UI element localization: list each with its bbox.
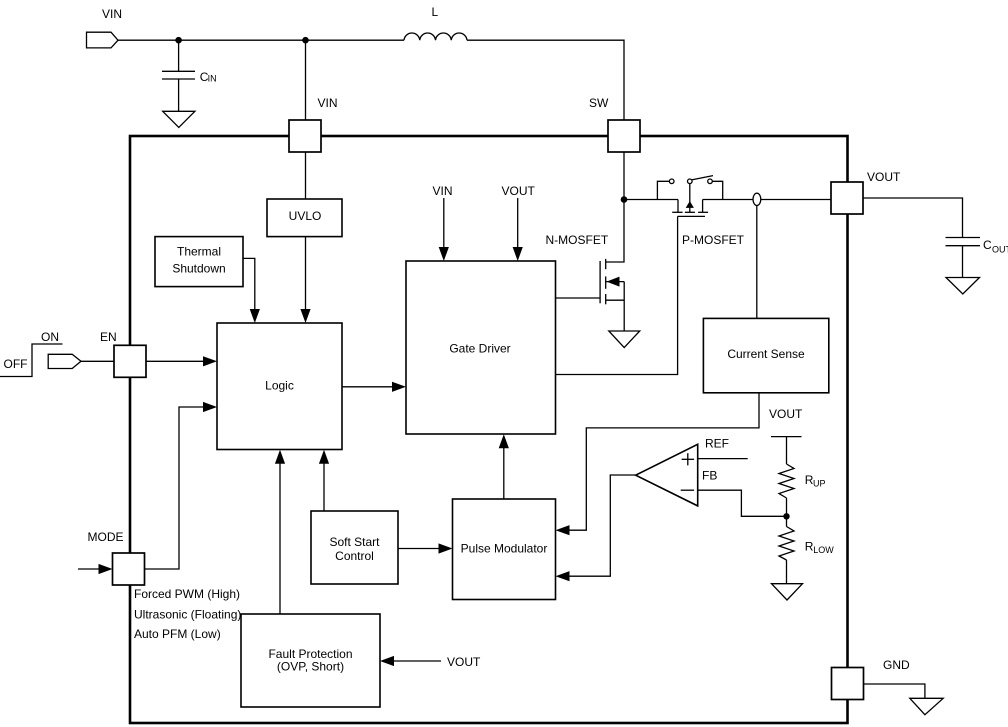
wire VIN node to VIN pin <box>305 40 307 120</box>
wire Logic to Gate Driver (arrow) <box>342 386 394 388</box>
junction dot switch node <box>621 196 628 203</box>
svg-text:Thermal: Thermal <box>177 245 221 259</box>
svg-text:VOUT: VOUT <box>447 655 481 669</box>
pin GND (square on right border) <box>832 668 864 700</box>
svg-text:SW: SW <box>589 96 609 110</box>
junction dot at VIN pin node <box>302 37 309 44</box>
gate bar <box>599 261 601 303</box>
wire rail to RUP <box>786 437 788 464</box>
switch circle left <box>669 179 674 184</box>
capacitor COUT label <box>983 238 1008 255</box>
wire Soft Start to Pulse Modulator (arrow) <box>398 548 442 550</box>
inductor L <box>404 33 467 40</box>
wire RUP to junction <box>786 498 788 516</box>
pin VIN (square on top border) <box>289 120 321 152</box>
transistor P-MOSFET (horizontal, bypass switch above) <box>657 176 722 217</box>
junction dot FB <box>783 513 789 519</box>
ground (divider) <box>772 584 803 600</box>
svg-text:Control: Control <box>335 549 374 563</box>
drain wire from switch node <box>606 200 624 263</box>
svg-text:MODE: MODE <box>88 530 124 544</box>
wire switch node to P-MOSFET source <box>624 199 678 201</box>
switch stub right <box>712 181 722 199</box>
transistor N-MOSFET (vertical) <box>556 200 625 332</box>
svg-text:REF: REF <box>705 437 729 451</box>
svg-text:IN: IN <box>208 74 217 84</box>
IC boundary box <box>130 136 848 723</box>
svg-text:FB: FB <box>702 469 717 483</box>
ground (GND pin) <box>910 698 943 714</box>
wire Current Sense to Pulse Modulator (arrow) <box>567 393 760 530</box>
wire VIN to Gate Driver (arrow) <box>443 198 445 250</box>
svg-text:GND: GND <box>883 658 910 672</box>
capacitor CIN label <box>200 70 217 84</box>
wire VOUT to Fault Protection (arrow) <box>391 660 441 662</box>
wire Soft Start to Logic (arrow) <box>323 461 325 512</box>
block Current Sense <box>703 318 828 392</box>
svg-text:Pulse Modulator: Pulse Modulator <box>461 542 548 556</box>
channel segment middle <box>605 276 607 288</box>
resistor RLOW <box>779 527 794 561</box>
wire EN pin to Logic (arrow) <box>146 360 206 362</box>
svg-text:C: C <box>983 238 992 252</box>
wire CIN node to VIN pin node <box>179 39 306 41</box>
svg-text:Current Sense: Current Sense <box>727 347 805 361</box>
wire VOUT pin to COUT <box>863 198 963 238</box>
wire VIN terminal to CIN node <box>118 39 179 41</box>
svg-text:N-MOSFET: N-MOSFET <box>546 233 609 247</box>
source contact <box>677 200 679 213</box>
svg-text:EN: EN <box>100 330 117 344</box>
wire MODE pin to Logic (arrow) <box>145 407 207 569</box>
label RUP <box>805 473 826 489</box>
wire FB input to divider junction <box>698 490 787 516</box>
switch circle right <box>708 179 713 184</box>
pin MODE (square on left border) <box>113 553 145 585</box>
block Gate Driver <box>406 261 556 434</box>
wire GND pin to ground <box>864 684 925 698</box>
current sense tap (oval) <box>753 193 761 205</box>
block UVLO <box>267 199 342 237</box>
wire VOUT to Gate Driver (arrow) <box>517 198 519 250</box>
source/body bus down to ground <box>623 282 625 331</box>
ground (N-MOSFET source) <box>609 331 640 348</box>
svg-text:ON: ON <box>41 330 59 344</box>
svg-text:VIN: VIN <box>433 184 453 198</box>
svg-text:Gate Driver: Gate Driver <box>449 342 510 356</box>
block Soft Start Control <box>311 511 398 584</box>
channel segment top <box>605 259 607 269</box>
source lead <box>606 299 625 301</box>
label RLOW <box>805 540 835 556</box>
arrow into MODE pin <box>78 568 103 570</box>
wire EN terminal to EN pin <box>81 360 114 362</box>
body arrow <box>606 281 625 283</box>
svg-text:LOW: LOW <box>813 545 834 555</box>
wire UVLO to Logic (arrow) <box>305 237 307 312</box>
svg-text:Auto PFM (Low): Auto PFM (Low) <box>134 627 221 641</box>
pin SW (square on top border) <box>608 120 640 152</box>
svg-text:VOUT: VOUT <box>769 407 803 421</box>
drain contact <box>702 200 704 213</box>
gate lead from Gate Driver <box>556 297 601 299</box>
switch circle middle <box>688 179 693 184</box>
svg-text:VIN: VIN <box>318 96 338 110</box>
junction dot at CIN <box>175 37 182 44</box>
gate bar <box>678 215 705 217</box>
pin VOUT (square on right border) <box>831 182 863 214</box>
block Fault Protection <box>241 614 380 707</box>
capacitor COUT <box>946 237 981 239</box>
svg-text:Soft Start: Soft Start <box>329 535 380 549</box>
svg-text:VOUT: VOUT <box>867 170 901 184</box>
svg-text:Forced PWM (High): Forced PWM (High) <box>134 587 240 601</box>
op-amp minus input symbol <box>681 489 694 491</box>
terminal EN input pin <box>48 354 81 368</box>
wire Fault Protection to Logic (arrow) <box>279 461 281 615</box>
wire RLOW to ground <box>786 560 788 584</box>
wire op-amp output to Pulse Modulator (arrow) <box>567 475 636 576</box>
svg-text:UVLO: UVLO <box>289 209 322 223</box>
svg-text:Ultrasonic (Floating): Ultrasonic (Floating) <box>134 608 241 622</box>
op-amp error amplifier <box>636 444 698 506</box>
body contact with up arrow <box>689 184 691 213</box>
wire inductor to SW pin <box>467 40 624 120</box>
svg-text:P-MOSFET: P-MOSFET <box>682 233 745 247</box>
wire junction to RLOW <box>786 516 788 526</box>
wire Gate Driver to P-MOSFET gate <box>556 216 678 374</box>
wire P-MOSFET drain to VOUT pin <box>703 199 831 201</box>
wire VIN pin to UVLO <box>305 152 307 199</box>
svg-text:OFF: OFF <box>4 357 28 371</box>
capacitor CIN <box>178 40 180 71</box>
wire Pulse Modulator to Gate Driver (arrow) <box>503 445 505 499</box>
wire Thermal Shutdown to Logic (arrow) <box>243 258 255 310</box>
svg-text:Shutdown: Shutdown <box>172 261 225 275</box>
svg-text:(OVP, Short): (OVP, Short) <box>277 660 344 674</box>
channel segment bottom <box>605 294 607 304</box>
EN on/off step waveform <box>0 344 63 377</box>
svg-text:OUT: OUT <box>992 245 1008 255</box>
op-amp plus input symbol <box>682 458 695 460</box>
block Thermal Shutdown <box>155 237 243 287</box>
svg-text:L: L <box>432 5 439 19</box>
wire tap to Current Sense <box>756 206 758 319</box>
svg-text:VOUT: VOUT <box>502 184 536 198</box>
terminal VIN input pin <box>87 32 119 48</box>
wire REF input <box>698 458 748 460</box>
resistor RUP <box>779 464 794 498</box>
svg-text:VIN: VIN <box>102 7 122 21</box>
ground (COUT) <box>946 278 980 295</box>
switch stub left <box>657 181 669 199</box>
block Pulse Modulator <box>453 499 556 600</box>
ground (CIN) <box>163 111 195 127</box>
VOUT rail bar <box>771 436 802 438</box>
pin EN (square on left border) <box>114 345 146 377</box>
svg-text:Logic: Logic <box>265 379 294 393</box>
wire VIN node to inductor <box>306 39 405 41</box>
svg-text:UP: UP <box>813 479 826 489</box>
wire SW pin to switch node <box>623 152 625 200</box>
block Logic <box>217 323 342 450</box>
switch lever <box>692 176 714 180</box>
